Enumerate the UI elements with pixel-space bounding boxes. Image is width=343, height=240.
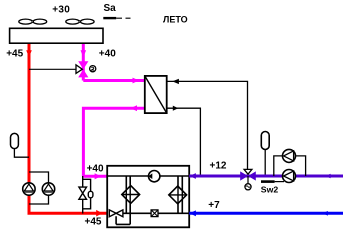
evaporator diamond (122, 186, 140, 204)
label +40 mid (87, 164, 104, 175)
label +40 top (99, 49, 116, 60)
wire: violet chilled-water return +12 (189, 175, 343, 178)
condenser diamond (169, 186, 187, 204)
wire: magenta pipe HX return down to chiller box +40 (83, 108, 145, 176)
chiller pump P3 (148, 171, 160, 182)
chiller box (107, 166, 189, 228)
wire: blue chilled-water supply +7 (189, 212, 343, 215)
pump P4 on bypass (283, 149, 296, 162)
compressor X-box (151, 210, 158, 217)
svg-text:ЛЕТО: ЛЕТО (163, 15, 188, 25)
wire: black cooling circuit HX bottom to violet line (167, 108, 201, 176)
balancing valve assembly between +40 and +45 pipes (79, 176, 93, 214)
wire: pump bypass loop right (274, 156, 306, 176)
wire: chiller internal bottom line (123, 212, 189, 214)
expansion vessel right (261, 132, 269, 175)
wire: pump bypass loop left (29, 172, 49, 204)
valve V2 three-way on violet line (240, 169, 256, 190)
label +45 bottom (85, 217, 102, 228)
wire: magenta pipe from cooler to valve V1 and to heat exchanger (83, 43, 144, 80)
wire: evaporator pipes left (116, 176, 130, 224)
wire: chiller internal top line (107, 175, 189, 177)
label +12 (210, 161, 227, 172)
fan 2 (66, 19, 94, 24)
sensor Sa label (104, 3, 117, 14)
svg-text:Sw2: Sw2 (261, 185, 279, 195)
svg-text:+30: +30 (52, 5, 70, 16)
flow arrow black right out of HX (173, 106, 179, 111)
sensor Sa symbol (thick bar + dashes) (103, 17, 130, 19)
label +45 top (6, 48, 23, 59)
flow arrow blue left into box (189, 210, 196, 216)
label +7 (208, 200, 220, 211)
pump P2 on bypass (42, 183, 54, 195)
wire: red pipe +45 from dry cooler down and right to chiller box (28, 43, 109, 213)
flow arrow violet left into box (189, 173, 196, 179)
flow arrow magenta down (81, 50, 87, 57)
svg-text:+40: +40 (99, 49, 116, 60)
flow arrow red down (26, 50, 32, 57)
svg-text:Sa: Sa (104, 3, 117, 14)
wire: black cooling circuit HX top to valve V2 (167, 81, 248, 170)
svg-text:+40: +40 (87, 164, 104, 175)
pump P1 on red pipe (23, 183, 35, 195)
flow arrow red right into box (96, 210, 102, 217)
fan 1 (19, 19, 47, 24)
heat exchanger E1 (145, 76, 167, 113)
flow arrow blue mid-line (322, 211, 328, 216)
expansion vessel left (11, 133, 30, 157)
flow arrow violet mid-line (325, 174, 331, 179)
sensor Sw2 label (261, 185, 279, 195)
wire: condenser pipes right (178, 176, 182, 213)
sensor Sw2 symbol (261, 180, 284, 183)
svg-text:+45: +45 (6, 48, 23, 59)
label +30 (52, 5, 70, 16)
label ЛЕТО (163, 15, 188, 25)
dry cooler body (10, 28, 103, 43)
valve V1 three-way (magenta bowtie + black side port + actuator) (76, 61, 96, 77)
pump P5 on violet line (283, 170, 296, 183)
shutoff valve at red inlet of box (109, 210, 123, 217)
wire: control line from red pipe to valve V1 (29, 68, 76, 70)
flow arrow magenta left out of HX (130, 105, 137, 111)
svg-text:+7: +7 (208, 200, 220, 211)
svg-text:+45: +45 (85, 217, 102, 228)
svg-text:+12: +12 (210, 161, 227, 172)
flow arrow black left into HX (172, 79, 179, 84)
flow arrow magenta right into box (95, 173, 101, 179)
flow arrow magenta right into HX (133, 78, 140, 84)
